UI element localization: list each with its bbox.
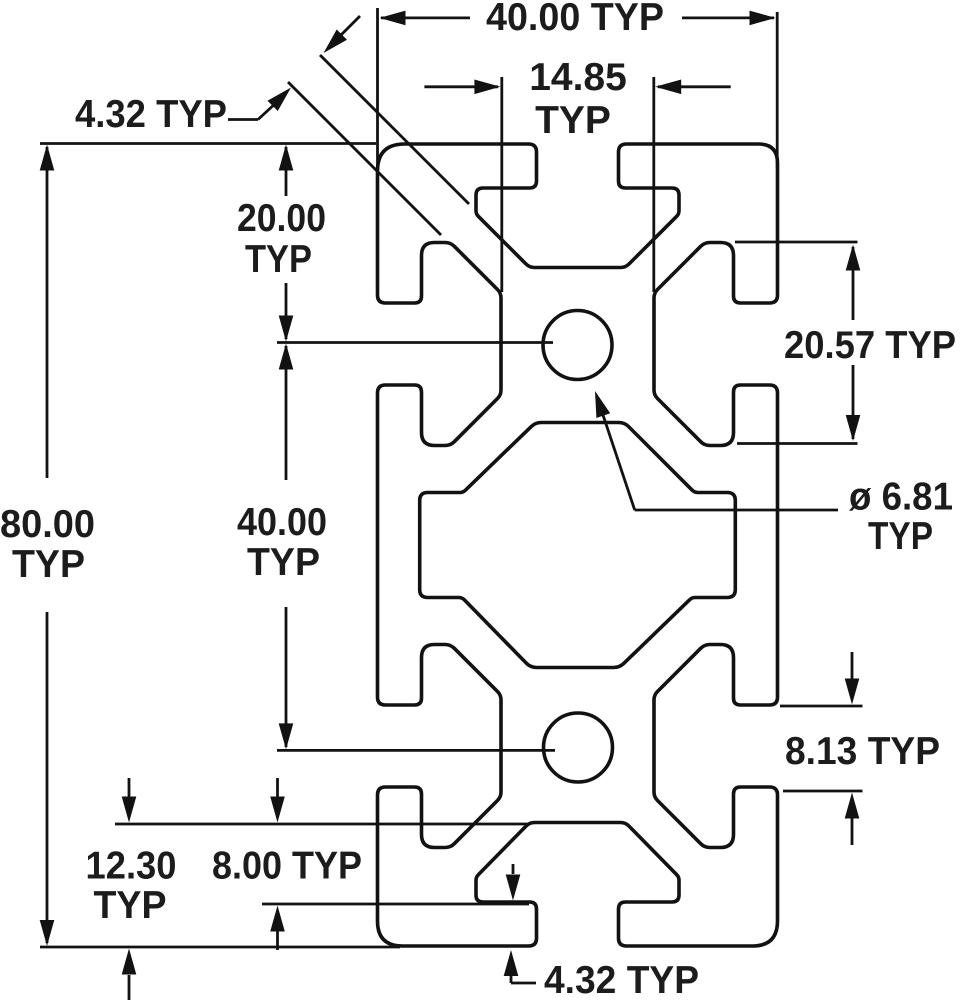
dim 6.81 leader (597, 396, 635, 511)
svg-text:20.00: 20.00 (237, 197, 326, 240)
dim 20.57 TYP extension bottom (737, 442, 858, 445)
dim 14.85 TYP extension right (652, 77, 655, 292)
central cavity (420, 423, 736, 668)
dim 40.00 TYP top line (381, 16, 470, 19)
dim 80.00 TYP extension top (40, 142, 376, 145)
svg-text:8.13 TYP: 8.13 TYP (785, 730, 940, 773)
dim 40.00 TYP top extension right (776, 12, 779, 168)
svg-text:TYP: TYP (94, 884, 167, 927)
svg-text:TYP: TYP (12, 543, 85, 586)
svg-text:20.57 TYP: 20.57 TYP (784, 324, 956, 367)
dim 8.00 TYP extension (lip line) (262, 903, 529, 906)
svg-text:12.30: 12.30 (86, 845, 177, 888)
dim 20.00 TYP line (285, 147, 288, 196)
dim 80.00 TYP line (46, 147, 49, 478)
dim 80.00 TYP extension bottom (40, 946, 400, 949)
dim 8.13 TYP extension bottom (783, 790, 863, 793)
svg-text:14.85: 14.85 (529, 56, 627, 99)
extrusion outer boundary with T-slots (378, 144, 778, 946)
svg-text:ø 6.81: ø 6.81 (849, 476, 953, 519)
dim 8.13 TYP extension top (780, 705, 863, 708)
dim 4.32 TYP bottom arrows (512, 864, 515, 874)
dim 40.00 TYP vert line (285, 346, 288, 480)
svg-text:80.00: 80.00 (0, 503, 95, 546)
svg-text:TYP: TYP (247, 541, 320, 584)
dim 4.32 TYP bottom leader (510, 976, 513, 983)
svg-text:TYP: TYP (535, 99, 611, 142)
hole bottom (6.81 dia) (544, 713, 613, 782)
dim 4.32 TYP diagonal extension 1 (288, 82, 441, 235)
dim 14.85 TYP line (424, 85, 498, 88)
dim 4.32 TYP diagonal extension 2 (320, 55, 469, 204)
svg-text:40.00: 40.00 (237, 501, 327, 544)
dim 40.00 TYP vert extension bottom (through hole 2) (277, 749, 555, 752)
dim 40.00 TYP top extension left (376, 8, 379, 170)
svg-text:TYP: TYP (245, 238, 312, 281)
dim 4.32 TYP outer arrow (341, 16, 360, 35)
dim 12.30 TYP extension (bowl floor) (115, 823, 530, 826)
svg-text:40.00 TYP: 40.00 TYP (486, 0, 664, 39)
dim 20.57 TYP extension top (735, 241, 858, 244)
dim 14.85 TYP extension left (500, 77, 503, 292)
dim 4.32 TYP leader (228, 118, 258, 121)
dim 40.00 TYP vert extension top (through hole 1) (277, 341, 553, 344)
dim 8.00 TYP arrows (276, 778, 279, 797)
svg-text:8.00 TYP: 8.00 TYP (212, 845, 362, 888)
dim 8.13 TYP arrows (851, 652, 854, 680)
svg-text:4.32 TYP: 4.32 TYP (544, 959, 699, 1000)
svg-text:4.32 TYP: 4.32 TYP (75, 93, 227, 136)
dim 12.30 TYP arrows (128, 778, 131, 797)
hole top (6.81 dia) (543, 311, 612, 380)
dim 20.57 TYP line (852, 247, 855, 320)
svg-text:TYP: TYP (868, 515, 933, 558)
